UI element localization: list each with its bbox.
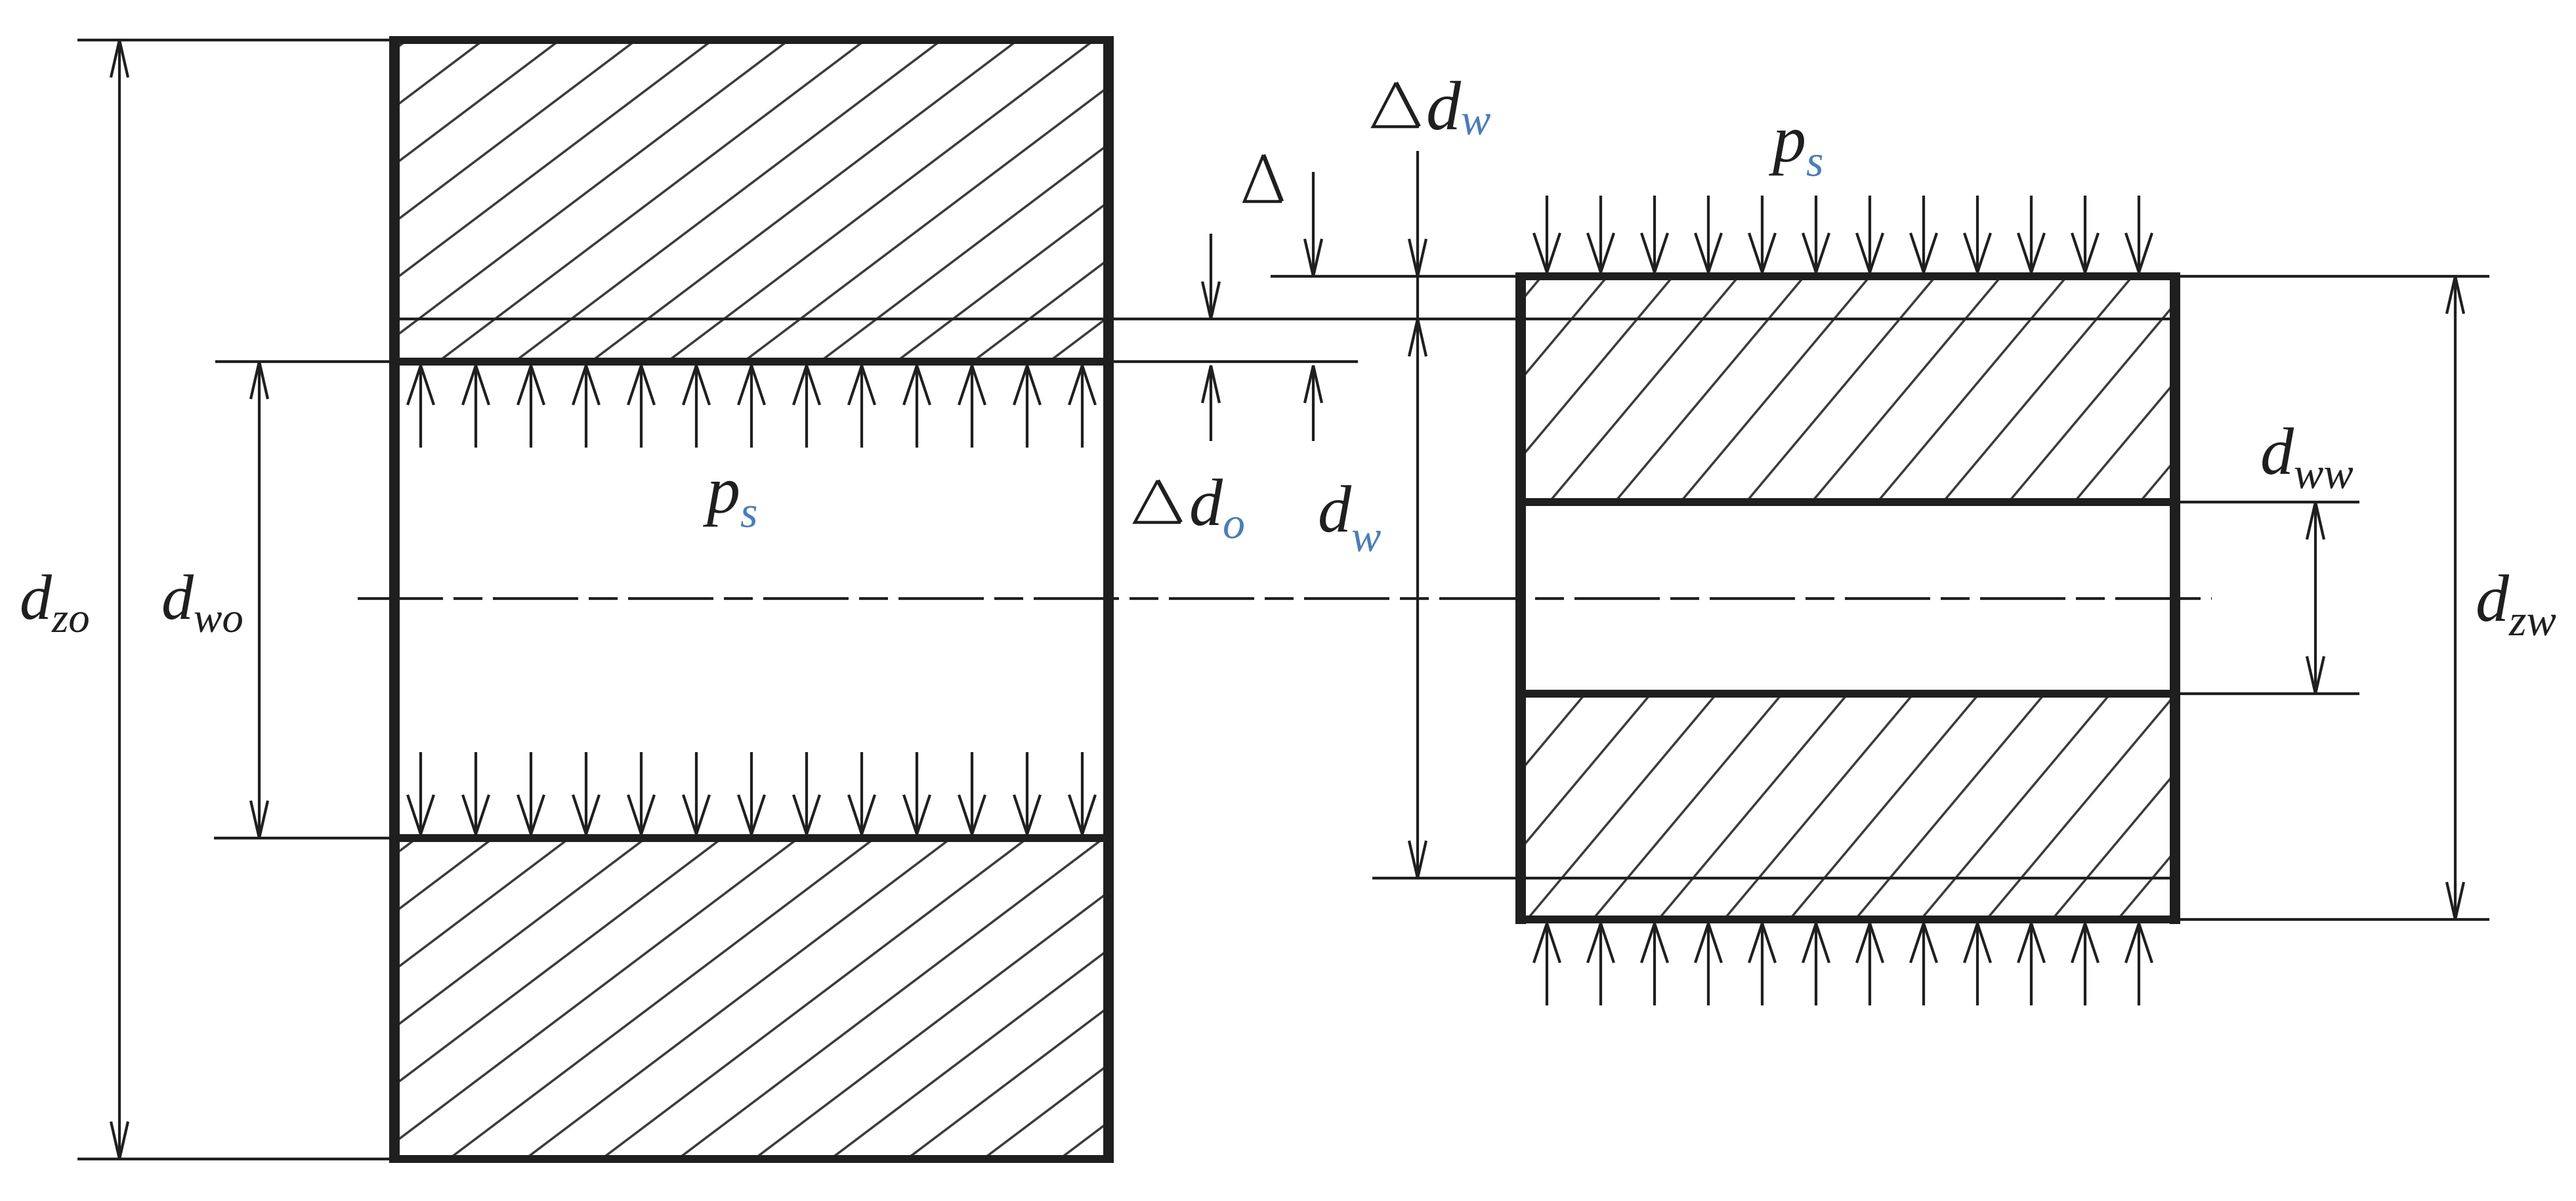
shaft lower hatch [1525,698,2171,916]
shaft axial hole upper line [1521,498,2175,506]
pressure arrows on hub bore upper surface [408,366,1095,448]
deformed interface line (common fit line) [394,318,2175,320]
d_ww bottom extension line [2175,692,2359,695]
delta lower arrow [1305,366,1322,441]
shaft upper hatch [1525,280,2171,498]
shaft original top extension line [1271,275,1521,278]
shaft axial hole lower line [1521,690,2175,698]
d_w dimension line with delta-d_w arrows [1409,151,1426,878]
d_w bottom extension line [1372,877,1376,879]
shaft deformed lower line [1376,877,2175,879]
pressure arrows on hub bore lower surface [408,752,1095,834]
hub section outline [391,36,1112,1163]
hub bore upper surface line [394,358,1109,366]
delta-d_o upper arrow [1202,234,1219,319]
d_zo dimension line [111,40,128,1159]
d_ww dimension line [2307,502,2324,694]
delta-d_o lower arrow [1202,366,1219,441]
pressure arrows on shaft upper surface [1534,196,2152,272]
d_zw top extension line [2175,275,2489,278]
d_wo bottom extension line [214,837,394,839]
pressure arrows on shaft lower surface [1534,923,2152,1005]
d_wo dimension line [251,362,268,838]
delta-d_o label [1135,480,1181,522]
d_zw dimension line [2447,276,2464,919]
d_zw bottom extension line [2175,918,2489,921]
d_ww top extension line [2175,501,2359,503]
hub upper hatch [398,44,1105,358]
d_wo top extension line [215,360,394,363]
centerline [358,597,2212,600]
shaft section outline [1517,272,2179,924]
hub bore lower surface line [394,834,1109,842]
hub bore extension line right [1109,360,1358,363]
delta upper arrow [1305,172,1322,276]
d_zo top extension line [77,39,394,41]
delta-d_w label [1373,83,1419,127]
d_zo bottom extension line [77,1158,394,1160]
hub lower hatch [398,842,1105,1155]
delta label [1244,155,1282,201]
